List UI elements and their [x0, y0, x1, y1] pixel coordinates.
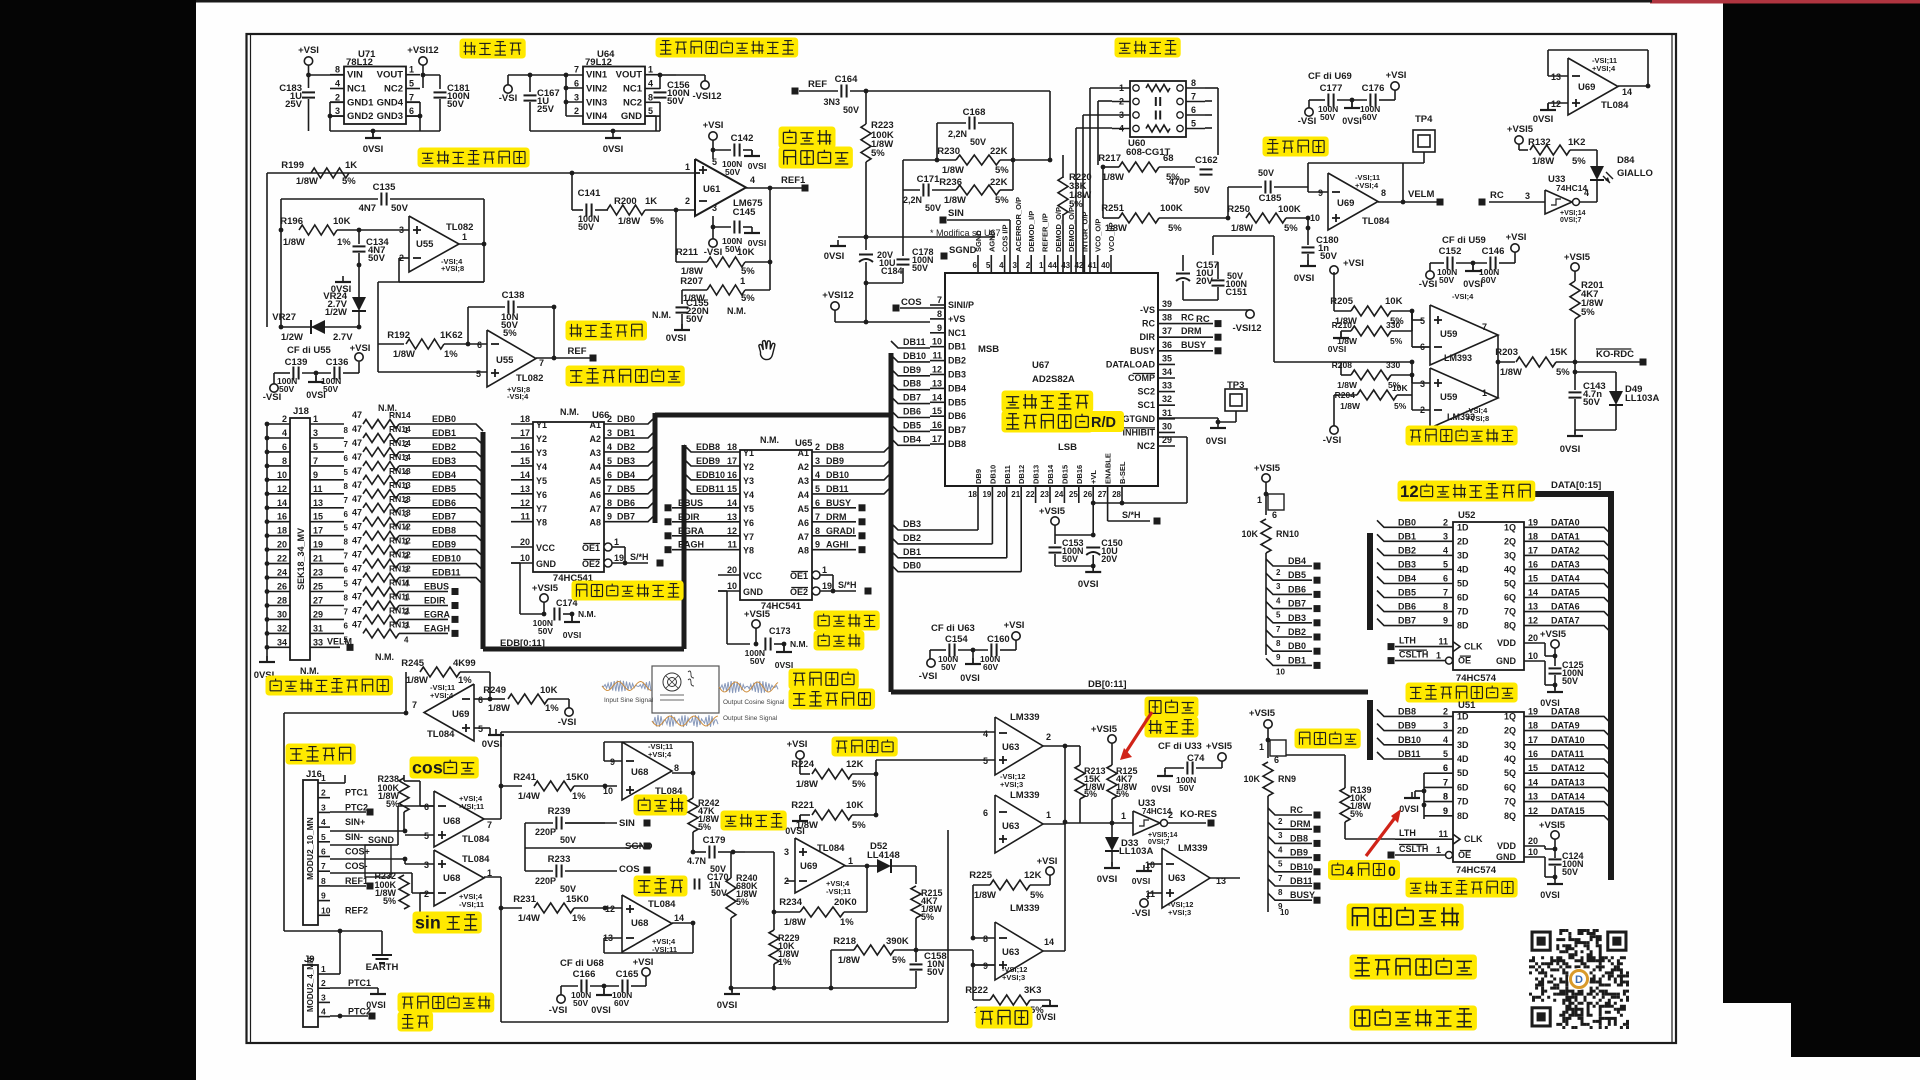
resistor network RN10 — [1262, 474, 1270, 482]
svg-text:BUSY: BUSY — [1130, 346, 1155, 356]
svg-text:50V: 50V — [750, 656, 765, 666]
svg-text:EGRA: EGRA — [678, 526, 705, 536]
R240 vertical — [726, 878, 736, 918]
svg-text:NC1: NC1 — [948, 328, 966, 338]
svg-text:25V: 25V — [285, 99, 303, 110]
svg-text:SC1: SC1 — [1137, 400, 1155, 410]
svg-text:50V: 50V — [368, 253, 386, 264]
svg-text:-VS: -VS — [1140, 305, 1155, 315]
svg-text:2: 2 — [1276, 568, 1281, 577]
svg-text:DRM: DRM — [1181, 326, 1202, 336]
svg-text:10: 10 — [1310, 213, 1320, 223]
svg-text:R211: R211 — [676, 247, 699, 258]
svg-text:8: 8 — [937, 309, 942, 319]
svg-text:RN11: RN11 — [389, 578, 411, 588]
svg-text:U52: U52 — [1458, 510, 1475, 521]
svg-text:RN11: RN11 — [389, 605, 411, 615]
svg-text:N.M.: N.M. — [790, 639, 808, 649]
0VSI at pin5 — [474, 727, 490, 729]
svg-text:EDB6: EDB6 — [432, 498, 456, 508]
svg-text:1%: 1% — [545, 703, 559, 714]
svg-text:COS+: COS+ — [345, 847, 370, 857]
svg-text:43: 43 — [1061, 261, 1070, 270]
svg-text:1: 1 — [321, 773, 326, 783]
svg-text:+VSI;4: +VSI;4 — [648, 750, 672, 759]
svg-text:12: 12 — [727, 526, 737, 536]
svg-text:5%: 5% — [386, 799, 399, 809]
svg-text:34: 34 — [277, 637, 287, 647]
svg-text:9: 9 — [1443, 806, 1448, 816]
svg-text:3: 3 — [313, 428, 318, 438]
svg-text:1: 1 — [321, 964, 326, 974]
label 旋转变压器信号解码器R/D — [1002, 391, 1094, 413]
svg-text:NC2: NC2 — [623, 97, 642, 108]
label 参考电压至解码器 — [566, 366, 685, 387]
wire REF branch down — [865, 91, 867, 124]
svg-text:DB7: DB7 — [1398, 616, 1416, 626]
svg-text:4D: 4D — [1457, 564, 1469, 574]
svg-text:CF di U33: CF di U33 — [1158, 741, 1202, 752]
svg-text:8Q: 8Q — [1504, 621, 1516, 631]
capacitor C167 — [507, 75, 509, 85]
svg-text:+VSI5: +VSI5 — [1254, 463, 1281, 474]
svg-text:R207: R207 — [680, 276, 703, 287]
svg-text:DB15: DB15 — [1060, 465, 1069, 484]
svg-text:6Q: 6Q — [1504, 593, 1516, 603]
svg-text:23: 23 — [1040, 490, 1049, 499]
svg-text:3: 3 — [815, 456, 820, 466]
svg-text:MODU2_10_MN: MODU2_10_MN — [305, 817, 315, 880]
R201 pullup — [1571, 263, 1579, 271]
svg-text:16: 16 — [932, 420, 942, 430]
svg-text:EGRA: EGRA — [424, 609, 451, 619]
svg-text:N.M.: N.M. — [560, 407, 579, 417]
svg-text:EDB[0:11]: EDB[0:11] — [500, 638, 545, 649]
svg-text:20: 20 — [727, 565, 737, 575]
svg-text:Y1: Y1 — [536, 420, 547, 430]
comparator U63c LM339 — [995, 922, 1043, 980]
svg-text:15: 15 — [932, 406, 942, 416]
svg-text:4: 4 — [1443, 545, 1448, 555]
schematic frame — [247, 34, 1677, 1043]
svg-text:U63: U63 — [1002, 742, 1019, 753]
svg-text:EDB10: EDB10 — [432, 554, 461, 564]
svg-text:25: 25 — [1069, 490, 1078, 499]
J18 left ground bus — [266, 424, 268, 660]
svg-text:LL103A: LL103A — [1625, 393, 1659, 404]
svg-text:50V: 50V — [927, 967, 945, 978]
svg-text:50V: 50V — [686, 314, 704, 325]
svg-text:1: 1 — [1039, 261, 1044, 270]
svg-text:5%: 5% — [1390, 336, 1403, 346]
svg-text:21: 21 — [1011, 490, 1020, 499]
svg-text:SIN-: SIN- — [345, 832, 363, 842]
IC U65 74HC541 buffer2 — [740, 450, 812, 600]
wire REF to C164 — [792, 88, 799, 95]
svg-text:Y4: Y4 — [743, 490, 754, 500]
svg-text:N.M.: N.M. — [578, 609, 596, 619]
svg-text:1Q: 1Q — [1504, 522, 1516, 532]
svg-text:50V: 50V — [1583, 397, 1601, 408]
svg-text:2: 2 — [335, 92, 340, 102]
svg-text:VCO_O/P: VCO_O/P — [1094, 219, 1103, 252]
svg-text:DB1: DB1 — [617, 428, 635, 438]
svg-text:TL084: TL084 — [817, 843, 845, 854]
svg-text:10: 10 — [1145, 860, 1155, 870]
svg-text:1/8W: 1/8W — [393, 349, 415, 360]
svg-text:DB7: DB7 — [903, 393, 921, 403]
svg-text:C138: C138 — [502, 290, 525, 301]
svg-text:10: 10 — [1276, 667, 1285, 676]
svg-text:1: 1 — [848, 856, 853, 866]
resistor R203 — [1516, 357, 1556, 367]
svg-text:U55: U55 — [416, 239, 434, 250]
svg-text:1%: 1% — [840, 917, 854, 928]
svg-text:DB6: DB6 — [948, 411, 966, 421]
svg-text:AGND: AGND — [987, 229, 996, 252]
svg-text:20V: 20V — [1101, 554, 1117, 564]
svg-text:+VSI;8: +VSI;8 — [441, 264, 464, 273]
wire R220 vertical — [1062, 155, 1064, 178]
svg-text:14: 14 — [1528, 588, 1538, 598]
svg-text:REF1: REF1 — [781, 175, 806, 186]
op-amp U61 LM675 power amp — [695, 159, 746, 216]
svg-text:R203: R203 — [1495, 347, 1518, 358]
svg-text:10K: 10K — [1241, 529, 1258, 539]
svg-text:DB4: DB4 — [948, 383, 966, 393]
svg-text:RC: RC — [1181, 313, 1194, 323]
svg-text:Y8: Y8 — [536, 518, 547, 528]
svg-text:-VSI: -VSI — [1132, 908, 1150, 919]
svg-text:U69: U69 — [800, 861, 817, 872]
J9 wires earth — [330, 973, 340, 975]
C179 C170 — [693, 851, 706, 853]
svg-text:22K: 22K — [990, 146, 1008, 157]
svg-text:50V: 50V — [279, 384, 294, 394]
svg-text:N.M.: N.M. — [727, 306, 746, 316]
IC U52 74HC574 — [1453, 522, 1524, 670]
svg-text:DB8: DB8 — [903, 379, 921, 389]
svg-text:9: 9 — [1276, 653, 1281, 662]
svg-text:DATA8: DATA8 — [1551, 706, 1580, 716]
svg-text:0VSI: 0VSI — [1078, 579, 1099, 590]
svg-text:+VSI12: +VSI12 — [407, 45, 438, 56]
svg-text:R221: R221 — [791, 800, 814, 811]
svg-text:15: 15 — [1528, 574, 1538, 584]
comparator output join — [1497, 335, 1499, 398]
testpoint TP3 — [1225, 389, 1247, 411]
label 正弦波激磁 — [566, 321, 648, 341]
svg-text:6: 6 — [973, 261, 978, 270]
svg-text:LL4148: LL4148 — [867, 850, 900, 861]
svg-text:4: 4 — [335, 79, 340, 89]
svg-text:Y7: Y7 — [536, 504, 547, 514]
svg-text:41: 41 — [1088, 261, 1097, 270]
svg-text:8: 8 — [344, 538, 349, 547]
svg-text:10K: 10K — [1385, 296, 1403, 307]
svg-text:5: 5 — [478, 724, 483, 734]
svg-text:+VSI;14: +VSI;14 — [1560, 210, 1586, 217]
svg-text:14: 14 — [1528, 777, 1538, 787]
svg-text:NC1: NC1 — [623, 84, 643, 95]
svg-text:DB8: DB8 — [1290, 833, 1308, 843]
svg-text:+VSI;3: +VSI;3 — [1168, 908, 1191, 917]
svg-text:1: 1 — [1259, 742, 1264, 752]
svg-text:2D: 2D — [1457, 536, 1469, 546]
svg-text:DB10: DB10 — [988, 465, 997, 484]
svg-text:0VSI: 0VSI — [366, 1000, 386, 1010]
ground wire U64 — [659, 102, 661, 131]
svg-text:CF di U68: CF di U68 — [560, 958, 604, 969]
svg-text:DATALOAD: DATALOAD — [1106, 359, 1156, 369]
svg-text:50V: 50V — [1320, 251, 1338, 262]
svg-text:1D: 1D — [1457, 711, 1469, 721]
svg-text:VOUT: VOUT — [377, 70, 404, 81]
svg-text:1Q: 1Q — [1504, 711, 1516, 721]
power terminal -VSI12 — [676, 74, 705, 76]
svg-text:DATA6: DATA6 — [1551, 602, 1580, 612]
svg-text:5: 5 — [476, 369, 481, 379]
svg-text:DB9: DB9 — [903, 365, 921, 375]
svg-text:SINI/P: SINI/P — [948, 300, 974, 310]
svg-text:35: 35 — [1162, 353, 1172, 363]
svg-text:0: 0 — [1388, 863, 1396, 879]
svg-text:VCO_I/P: VCO_I/P — [1107, 222, 1116, 252]
svg-text:3: 3 — [1443, 721, 1448, 731]
svg-text:47: 47 — [352, 452, 362, 462]
QR centre logo — [1568, 968, 1590, 990]
svg-text:16: 16 — [1528, 749, 1538, 759]
svg-text:DATA12: DATA12 — [1551, 763, 1585, 773]
svg-text:5: 5 — [344, 580, 349, 589]
svg-text:19: 19 — [822, 581, 832, 591]
label 正弦波激磁电压 (two lines) — [779, 127, 836, 149]
power +VSI pin5 — [709, 132, 717, 140]
wires to U64 pins — [530, 74, 583, 76]
svg-text:DB3: DB3 — [903, 519, 921, 529]
INHIBIT pull wire — [1122, 502, 1187, 504]
svg-text:+VSI: +VSI — [350, 343, 371, 354]
svg-text:U63: U63 — [1002, 821, 1019, 832]
svg-text:C185: C185 — [1259, 193, 1282, 204]
label 正弦波发生电路 — [418, 148, 530, 168]
label 旋变结构及相关波形 — [789, 669, 859, 690]
svg-text:50V: 50V — [578, 222, 594, 232]
svg-text:18: 18 — [968, 490, 977, 499]
svg-text:VOUT: VOUT — [616, 70, 643, 81]
svg-text:4: 4 — [1443, 735, 1448, 745]
svg-text:8: 8 — [1443, 792, 1448, 802]
svg-text:EDB3: EDB3 — [432, 456, 456, 466]
svg-text:Y2: Y2 — [743, 462, 754, 472]
svg-text:5%: 5% — [342, 176, 356, 187]
svg-text:4: 4 — [999, 261, 1004, 270]
R215 vertical — [911, 886, 921, 918]
svg-text:+VSI: +VSI — [633, 957, 654, 968]
svg-text:DB3: DB3 — [1398, 559, 1416, 569]
svg-text:Y6: Y6 — [743, 518, 754, 528]
R233 cap — [525, 870, 553, 872]
svg-text:RN11: RN11 — [389, 592, 411, 602]
capacitor C156 — [660, 74, 676, 76]
svg-text:1/8W: 1/8W — [296, 176, 318, 187]
svg-text:RN12: RN12 — [389, 564, 411, 574]
svg-text:6: 6 — [424, 802, 429, 812]
svg-text:NC2: NC2 — [384, 84, 403, 95]
svg-text:A7: A7 — [589, 504, 601, 514]
svg-text:0VSI;7: 0VSI;7 — [1148, 839, 1170, 846]
svg-text:R200: R200 — [614, 196, 637, 207]
svg-text:50V: 50V — [560, 884, 576, 894]
svg-text:4Q: 4Q — [1504, 754, 1516, 764]
EDB thick bus vertical — [481, 432, 486, 649]
svg-text:EDB0: EDB0 — [432, 414, 456, 424]
svg-text:8: 8 — [983, 934, 988, 944]
ground at J18 — [266, 660, 268, 662]
svg-text:47: 47 — [352, 508, 362, 518]
svg-text:2: 2 — [321, 978, 326, 988]
J9 connector MODU2_4_MN — [303, 965, 318, 1027]
svg-text:10: 10 — [1280, 908, 1289, 917]
svg-text:4: 4 — [1346, 863, 1354, 879]
svg-text:OE1: OE1 — [790, 571, 808, 581]
svg-text:5%: 5% — [871, 148, 885, 159]
op-amp U69c monitor (left-pointing) — [284, 712, 406, 714]
R245 feedback — [405, 672, 407, 713]
svg-text:1/8W: 1/8W — [784, 917, 806, 928]
svg-text:+VSI;4: +VSI;4 — [1592, 64, 1616, 73]
svg-text:7: 7 — [344, 496, 349, 505]
op-amp U55 TL082 (oscillator) — [409, 216, 459, 272]
svg-text:1/2W: 1/2W — [325, 307, 347, 318]
svg-text:RN11: RN11 — [389, 619, 411, 629]
svg-text:LM339: LM339 — [1010, 712, 1040, 723]
svg-text:7Q: 7Q — [1504, 797, 1516, 807]
svg-text:14: 14 — [277, 498, 287, 508]
svg-text:1%: 1% — [778, 957, 791, 967]
svg-text:47: 47 — [352, 522, 362, 532]
svg-text:1/8W: 1/8W — [1231, 223, 1253, 234]
svg-text:+VS: +VS — [948, 314, 965, 324]
svg-text:1: 1 — [462, 232, 467, 242]
svg-text:10: 10 — [520, 553, 530, 563]
svg-text:2: 2 — [815, 442, 820, 452]
sin node and R231 — [484, 876, 501, 878]
svg-text:1/8W: 1/8W — [406, 675, 428, 686]
svg-text:100K: 100K — [1160, 203, 1183, 214]
svg-text:DB4: DB4 — [903, 434, 921, 444]
+VSI R205 R210 — [1330, 266, 1338, 274]
svg-text:DB1: DB1 — [948, 342, 966, 352]
svg-text:12: 12 — [605, 904, 615, 914]
svg-text:50V: 50V — [1194, 185, 1210, 195]
svg-text:U63: U63 — [1168, 873, 1185, 884]
regulator U71 78L12 — [344, 67, 406, 125]
svg-text:12: 12 — [1528, 616, 1538, 626]
svg-text:DATA7: DATA7 — [1551, 616, 1580, 626]
svg-text:A1: A1 — [797, 448, 809, 458]
svg-text:SIN+: SIN+ — [345, 817, 365, 827]
svg-text:5%: 5% — [1116, 789, 1129, 799]
R222 — [990, 995, 1030, 1005]
svg-text:5D: 5D — [1457, 768, 1469, 778]
ground 0VSI — [372, 132, 374, 138]
svg-text:INHIBIT: INHIBIT — [1123, 427, 1156, 437]
svg-text:8: 8 — [1276, 639, 1281, 648]
svg-text:2: 2 — [607, 414, 612, 424]
svg-text:7: 7 — [344, 608, 349, 617]
svg-text:TL084: TL084 — [462, 854, 490, 865]
svg-text:2: 2 — [1046, 732, 1051, 742]
svg-text:R239: R239 — [548, 806, 571, 817]
svg-text:DATA1: DATA1 — [1551, 531, 1580, 541]
svg-text:1/4W: 1/4W — [518, 913, 540, 924]
power -VSI12 — [1246, 310, 1254, 318]
svg-text:5: 5 — [983, 756, 988, 766]
svg-text:20: 20 — [1528, 836, 1538, 846]
svg-text:60V: 60V — [1362, 112, 1377, 122]
svg-text:CF di U55: CF di U55 — [287, 345, 332, 356]
label cos信号 — [410, 757, 479, 779]
svg-text:5%: 5% — [1581, 307, 1595, 318]
svg-text:R222: R222 — [965, 985, 988, 996]
svg-text:A3: A3 — [589, 448, 601, 458]
svg-text:47: 47 — [352, 592, 362, 602]
svg-text:22: 22 — [1026, 490, 1035, 499]
svg-text:17: 17 — [1528, 735, 1538, 745]
svg-text:-VSI: -VSI — [704, 247, 722, 258]
svg-text:50V: 50V — [970, 137, 986, 147]
svg-text:4: 4 — [404, 635, 409, 644]
SIN terminal — [940, 217, 947, 224]
svg-text:5: 5 — [424, 831, 429, 841]
svg-text:6: 6 — [1443, 763, 1448, 773]
R132 LED circuit — [1515, 136, 1523, 144]
svg-text:7: 7 — [1443, 777, 1448, 787]
svg-text:40: 40 — [1101, 261, 1110, 270]
+VSI5 C174 — [540, 594, 548, 602]
wires from network to AD2S82A — [1090, 87, 1112, 89]
svg-text:C164: C164 — [835, 74, 858, 85]
svg-text:DB1: DB1 — [903, 547, 921, 557]
svg-text:N.M.: N.M. — [760, 435, 779, 445]
svg-text:6: 6 — [344, 621, 349, 630]
wire output — [459, 243, 484, 245]
svg-text:8: 8 — [282, 456, 287, 466]
svg-text:DB0: DB0 — [1398, 517, 1416, 527]
svg-text:EDB8: EDB8 — [432, 526, 456, 536]
svg-text:LM339: LM339 — [1010, 790, 1040, 801]
svg-text:DB5: DB5 — [1288, 570, 1306, 580]
svg-text:10: 10 — [277, 470, 287, 480]
svg-text:DEMOD_O/P: DEMOD_O/P — [1054, 207, 1063, 252]
output D52 — [845, 865, 877, 867]
svg-text:15K: 15K — [1550, 347, 1568, 358]
svg-text:A3: A3 — [797, 476, 809, 486]
label 扫描二维码 — [1347, 904, 1464, 931]
svg-text:7: 7 — [937, 295, 942, 305]
svg-text:3N3: 3N3 — [823, 97, 840, 107]
svg-text:+VSI: +VSI — [298, 45, 319, 56]
svg-text:TL082: TL082 — [446, 222, 473, 233]
svg-text:31: 31 — [1162, 408, 1172, 418]
svg-text:3D: 3D — [1457, 550, 1469, 560]
svg-text:1/8W: 1/8W — [974, 890, 996, 901]
svg-text:DB0: DB0 — [903, 561, 921, 571]
svg-text:7D: 7D — [1457, 797, 1469, 807]
svg-text:R236: R236 — [939, 177, 962, 188]
svg-text:-VSI: -VSI — [558, 717, 576, 728]
